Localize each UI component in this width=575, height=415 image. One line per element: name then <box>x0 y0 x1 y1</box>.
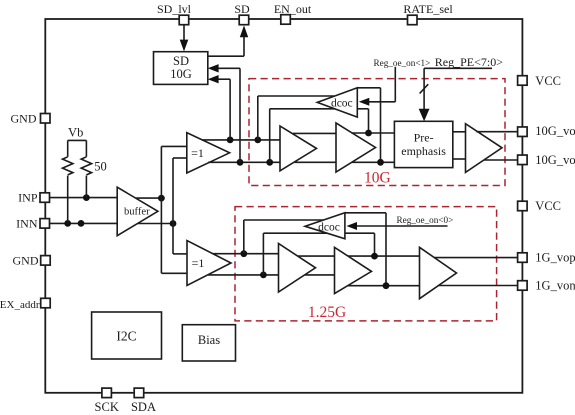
node dcoc tap A upper <box>254 137 261 144</box>
wire dcoc feedback B <box>270 109 336 163</box>
amplifier A1 (10G stage 1) <box>280 126 317 171</box>
op-amp dcoc (10G) <box>317 88 357 117</box>
block I2C <box>92 312 162 359</box>
svg-text:I2C: I2C <box>116 329 136 344</box>
wire INP net <box>50 197 162 200</box>
svg-text:INN: INN <box>16 217 38 231</box>
pin 10G_vop <box>518 124 575 138</box>
wire dcoc right stub to upper line <box>357 109 368 133</box>
node dcoc2 stub junction <box>371 253 378 260</box>
pin INP <box>18 191 49 205</box>
node dcoc2 corner junction <box>383 282 390 289</box>
svg-text:GND: GND <box>11 112 37 126</box>
block Bias <box>182 325 235 361</box>
1.25G domain dashed box <box>235 207 497 321</box>
pin GND (upper left) <box>11 112 51 126</box>
wire dcoc feedback A <box>258 96 334 140</box>
svg-text:=1: =1 <box>191 146 204 160</box>
pin SCK <box>95 388 119 414</box>
wire Vb bar <box>68 139 87 141</box>
amplifier A6 (1.25G output driver) <box>420 247 457 298</box>
wire buffer-out-A vertical <box>161 146 187 273</box>
amplifier A5 (1.25G stage 2) <box>335 247 372 293</box>
svg-text:dcoc: dcoc <box>331 98 353 110</box>
svg-text:Pre-: Pre- <box>414 131 434 145</box>
gate U2 =1 (1.25G XOR) <box>187 241 231 286</box>
wire Reg_oc_on1 to dcoc with arrow <box>359 67 396 106</box>
svg-text:EN_out: EN_out <box>274 2 312 16</box>
node dcoc corner junction <box>377 159 384 166</box>
node INN junction 2 <box>78 220 85 227</box>
pin SD_lvl <box>157 2 192 25</box>
label Reg_PE&lt;7:0&gt; <box>424 55 503 69</box>
node buffer upper output junction <box>158 195 165 202</box>
pin RATE_sel <box>403 2 453 25</box>
wire INN net <box>50 222 173 224</box>
node dcoc tap B lower <box>266 159 273 166</box>
svg-text:VCC: VCC <box>535 199 561 213</box>
wire Reg_oc_on0 to dcoc2 with arrow <box>347 222 448 230</box>
svg-text:50: 50 <box>94 160 107 174</box>
wire 1G_von output <box>439 285 518 287</box>
node INN resistor junction <box>64 220 71 227</box>
pin INN <box>16 217 49 231</box>
wire PE to output amp <box>453 132 466 159</box>
svg-text:Bias: Bias <box>198 333 220 347</box>
amplifier A2 (10G stage 2) <box>336 123 376 172</box>
node buffer lower output junction <box>170 220 177 227</box>
svg-text:SD: SD <box>234 2 250 16</box>
wire 10G upper path mid <box>293 132 395 134</box>
wire dcoc2 right stub <box>345 233 375 256</box>
wire 10G_vop output <box>476 131 517 133</box>
node dcoc stub junction <box>365 130 372 137</box>
svg-text:10G: 10G <box>364 169 391 186</box>
pin SD <box>234 2 250 25</box>
amplifier A3 (10G output driver) <box>466 124 503 173</box>
wire buffer-out-B vertical <box>173 158 187 254</box>
wire 10G lower path <box>208 161 394 163</box>
svg-text:RATE_sel: RATE_sel <box>403 2 453 16</box>
node dcoc2 tap B <box>260 272 267 279</box>
wire 10G_von output <box>484 159 518 161</box>
svg-text:SDA: SDA <box>131 400 156 414</box>
svg-text:10G_vop: 10G_vop <box>535 124 575 138</box>
pin 1G_von <box>518 279 575 293</box>
resistor R1 50ohm <box>62 140 72 223</box>
svg-text:INP: INP <box>18 191 38 205</box>
svg-text:Reg_PE<7:0>: Reg_PE<7:0> <box>435 55 503 69</box>
chip boundary <box>45 19 522 393</box>
op-amp buffer <box>117 187 158 236</box>
pin VCC (upper right) <box>518 74 561 88</box>
svg-text:VCC: VCC <box>535 74 561 88</box>
wire 1.25G lower path <box>208 275 420 286</box>
wire 1.25G upper path <box>212 254 419 256</box>
10G domain dashed box <box>249 79 505 186</box>
node SD tap upper <box>227 137 234 144</box>
pin VCC (lower right) <box>518 199 561 213</box>
wire SD tap upper to SD block <box>208 75 230 140</box>
svg-text:buffer: buffer <box>124 206 150 217</box>
svg-text:Vb: Vb <box>68 126 83 140</box>
svg-text:SCK: SCK <box>95 400 119 414</box>
svg-text:10G: 10G <box>170 67 192 81</box>
wire dcoc2 feedback B <box>263 233 327 275</box>
svg-text:dcoc: dcoc <box>318 222 340 234</box>
svg-text:1G_vop: 1G_vop <box>535 251 575 265</box>
block SD 10G <box>154 52 208 85</box>
svg-text:1G_von: 1G_von <box>535 279 575 293</box>
wire 1G_vop output <box>434 257 517 259</box>
wire dcoc corner to lower line <box>357 88 380 163</box>
svg-text:EX_addr: EX_addr <box>0 299 40 311</box>
node INP resistor junction <box>83 194 90 201</box>
pin EX_addr <box>0 298 50 311</box>
wire SD block to SD pin with arrow <box>208 25 248 56</box>
node SD tap lower <box>237 159 244 166</box>
svg-text:Reg_oe_on<1>: Reg_oe_on<1> <box>374 58 431 68</box>
wire Reg_PE to Pre-emphasis with arrow and bus slash <box>419 68 430 121</box>
amplifier A4 (1.25G stage 1) <box>279 244 316 293</box>
svg-text:10G_von: 10G_von <box>535 153 575 167</box>
svg-text:SD_lvl: SD_lvl <box>157 2 192 16</box>
pin 1G_vop <box>518 251 575 265</box>
pin SDA <box>131 388 156 414</box>
svg-text:1.25G: 1.25G <box>308 304 346 321</box>
pin GND (lower left) <box>13 254 51 268</box>
block Pre-emphasis <box>394 121 452 167</box>
wire dcoc2 corner tap <box>345 213 386 286</box>
op-amp dcoc (1.25G) <box>305 213 345 239</box>
pin 10G_von <box>518 153 575 167</box>
gate U1 =1 (10G XOR) <box>187 133 230 173</box>
svg-text:emphasis: emphasis <box>401 144 446 158</box>
node dcoc2 tap A <box>240 250 247 257</box>
wire SD tap lower to SD block <box>208 64 240 162</box>
svg-text:=1: =1 <box>192 256 205 270</box>
wire SD_lvl to SD block with arrow <box>180 25 189 52</box>
wire 10G upper path left <box>202 139 280 141</box>
resistor R2 50ohm <box>81 140 91 197</box>
pin EN_out <box>274 2 312 24</box>
wire dcoc2 feedback A <box>244 220 324 254</box>
svg-text:GND: GND <box>13 254 39 268</box>
svg-text:Reg_oe_on<0>: Reg_oe_on<0> <box>397 215 454 225</box>
